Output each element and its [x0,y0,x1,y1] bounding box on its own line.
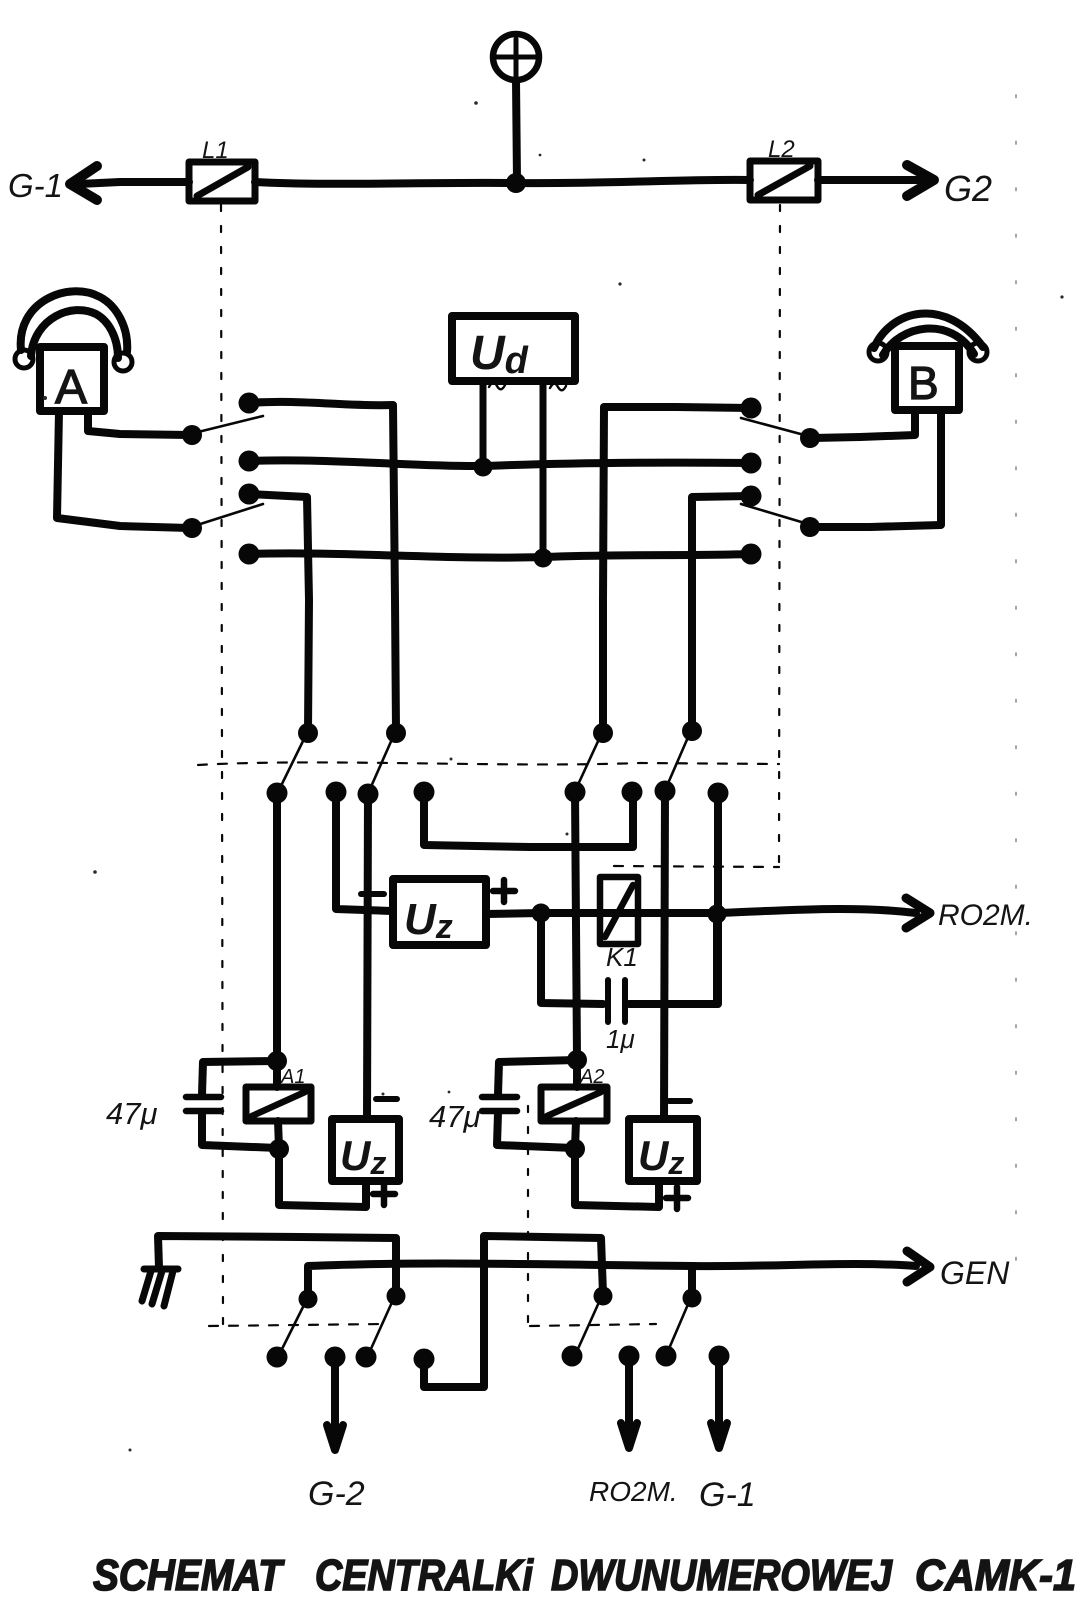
caption title [93,1551,1076,1600]
switch arm p2 [370,737,393,789]
relay coil K1 [600,877,638,944]
node A1 bottom junction [269,1139,289,1159]
capacitor C1 1u [608,980,625,1022]
faint margin dotted line [1015,95,1017,1300]
node pivot g4 [683,1289,702,1308]
node B hook pivot 2 [800,517,820,537]
scan speck [43,101,1064,1451]
svg-text:CENTRALKi: CENTRALKi [315,1551,534,1600]
wire S-link pivot g3 to contact n4 [424,1236,603,1387]
node contact n1 [267,1347,288,1368]
node contact m6 [622,782,643,803]
node pivot p3 [593,723,613,743]
svg-text:RO2M.: RO2M. [589,1476,678,1507]
wire contact m1 down [273,793,281,1060]
dashed box bottom edge [614,866,779,867]
wire A1 bottom stub [278,1121,279,1148]
telephone A box [40,347,104,411]
switch arm A2 [194,504,263,526]
wire ground to pivot g2 [158,1236,396,1294]
node top bus junction [506,173,526,193]
ac mark right [550,384,566,391]
battery plus terminal [493,34,539,80]
wire A2 to Uz lower-right plus [575,1149,659,1207]
wire B box right leg [812,410,941,527]
wire arrow G-1 out [715,1366,723,1440]
supply Uz lower-right box [629,1119,697,1181]
wire top bus center [255,180,750,184]
node pivot p1 [298,723,318,743]
node junction k1 right [708,905,727,924]
capacitor C2 47u [186,1097,221,1111]
ac mark left [489,383,505,390]
node contact b1 [741,398,762,419]
switch arm g2 [370,1300,393,1351]
node pivot p4 [682,721,702,741]
node RO2M-out arrowhead [621,1423,637,1448]
svg-text:1μ: 1μ [606,1024,635,1054]
wire arrow RO2M out [625,1366,633,1440]
supply Uz lower-left box [332,1119,399,1181]
relay coil L2 [750,161,818,200]
switch arm p4 [666,735,689,788]
node A2 bottom junction [565,1139,585,1159]
node contact b4 [741,544,762,565]
wire row1 right to drop [603,407,751,731]
wire row4 bus [249,553,751,557]
switch arm B2 [741,504,808,524]
ground [142,1269,178,1306]
node contact m7 [655,781,676,802]
node A1 top junction [267,1051,287,1071]
svg-text:K1: K1 [606,942,638,972]
wire RO2M bus [486,909,916,914]
supply Uz upper box [393,879,486,945]
relay coil A2 [541,1087,607,1121]
wire capacitor C3 bottom lead [497,1113,574,1148]
wire capacitor C2 bottom lead [202,1113,278,1148]
svg-text:47μ: 47μ [429,1099,480,1134]
wire row3 left to drop [249,494,309,731]
wire A2 top stub [573,1060,581,1087]
node contact a4 [239,544,260,565]
sign plus Uz lower-right [666,1187,688,1209]
svg-text:DWUNUMEROWEJ: DWUNUMEROWEJ [551,1551,893,1600]
svg-text:G-2: G-2 [308,1475,365,1513]
wire A1 to Uz lower-left plus [279,1149,366,1207]
wire B box left leg [812,410,915,438]
node contact a1 [239,393,260,414]
switch arm p1 [279,737,305,790]
wire A2 bottom stub [575,1121,576,1148]
sign minus Uz lower-right [669,1098,690,1104]
node contact b3 [741,486,762,507]
wire row1 left to drop [249,402,396,731]
wire arrow G-2 out [331,1366,339,1442]
svg-text:L1: L1 [202,137,229,164]
wire GEN drop to pivot g4 [688,1266,696,1296]
wire top bus left [79,182,189,184]
node A2 top junction [567,1050,587,1070]
svg-text:47μ: 47μ [106,1096,157,1131]
node G-1-out arrowhead [711,1423,727,1448]
switch arm g1 [281,1303,305,1351]
wire capacitor C3 top lead [498,1060,577,1094]
node contact m4 [414,782,435,803]
sign minus Uz lower-left [376,1096,397,1102]
dashed bottom edge left group [209,1324,384,1326]
switch arm A1 [194,416,263,433]
svg-text:Ud: Ud [470,327,529,382]
source Ud box [452,316,575,381]
node contact n8 [709,1346,730,1367]
node contact n4 [414,1349,435,1370]
node contact m8 [708,783,729,804]
dashed boundary mid [527,1106,529,1325]
telephone B handset [869,313,987,361]
wire contact m4 to m6 loop [424,792,633,847]
wire top bus right [818,176,922,184]
switch arm B1 [741,418,808,436]
node B hook pivot 1 [800,428,820,448]
svg-text:CAMK-1: CAMK-1 [915,1551,1076,1600]
node A hook pivot 2 [182,518,202,538]
wire row2 bus [249,460,751,466]
node G-2 arrowhead [327,1425,343,1450]
wire Ud right leg [540,381,547,557]
node contact m3 [358,784,379,805]
svg-text:RO2M.: RO2M. [938,899,1033,932]
wire capacitor C1 right branch [629,914,717,1004]
svg-text:Uz: Uz [638,1132,684,1181]
telephone A handset [15,291,132,371]
switch arm g4 [668,1302,689,1351]
svg-text:Uz: Uz [340,1132,386,1181]
node contact m5 [565,782,586,803]
node pivot g3 [594,1287,613,1306]
dashed bottom edge right group [530,1324,656,1326]
svg-text:GEN: GEN [940,1255,1010,1291]
svg-text:B: B [908,357,939,409]
switch arm g3 [577,1300,600,1351]
node contact m1 [267,783,288,804]
node contact n2 [325,1347,346,1368]
wire contact m2 to Uz [336,792,392,911]
svg-text:G-1: G-1 [8,167,63,204]
wire A1 top stub [273,1061,281,1087]
node pivot g2 [387,1287,406,1306]
capacitor C3 47u [482,1097,517,1111]
svg-text:G2: G2 [944,168,992,209]
node Ud left junction [474,458,493,477]
dashed box top edge [198,762,779,765]
svg-text:G-1: G-1 [699,1476,756,1514]
node contact a2 [239,451,260,472]
wire A box left leg [57,411,190,528]
wire capacitor C2 top lead [202,1061,277,1094]
svg-text:A2: A2 [579,1066,604,1088]
node pivot g1 [299,1290,318,1309]
node contact a3 [239,484,260,505]
node G2 arrowhead [907,165,934,196]
svg-text:Uz: Uz [404,895,453,946]
sign plus Uz upper [493,880,515,902]
wire contact m5 down [575,792,577,1059]
svg-text:A: A [55,361,87,414]
node contact m2 [326,782,347,803]
wire contact m7 down [664,791,665,1119]
telephone B box [895,346,959,410]
wire A box right leg [88,411,190,435]
node GEN arrowhead [907,1251,930,1282]
node junction k1 left [532,904,551,923]
node contact n5 [562,1346,583,1367]
svg-text:L2: L2 [768,136,795,163]
wire contact m3 down [367,794,368,1119]
node pivot p2 [386,723,406,743]
dashed boundary left [221,205,223,1325]
switch arm p3 [576,737,600,789]
node A hook pivot 1 [182,425,202,445]
node RO2M arrowhead [906,898,930,928]
node contact n6 [619,1346,640,1367]
wire Ud left leg [480,381,487,466]
node Ud right junction [534,549,553,568]
sign minus Uz upper [361,891,384,897]
wire contact m8 down [714,793,722,1004]
wire row3 right to drop [692,496,751,729]
wire capacitor C1 left branch [541,913,603,1004]
sign plus Uz lower-left [373,1183,395,1205]
node contact b2 [741,453,762,474]
svg-text:A1: A1 [280,1066,305,1088]
node contact n3 [356,1347,377,1368]
relay coil A1 [246,1087,311,1121]
node contact n7 [656,1346,677,1367]
wire GEN bus [308,1264,916,1297]
wire battery to bus [516,80,517,181]
relay coil L1 [189,162,255,201]
svg-text:SCHEMAT: SCHEMAT [93,1551,285,1600]
node G1 arrowhead [70,166,97,200]
dashed boundary right [779,205,780,864]
